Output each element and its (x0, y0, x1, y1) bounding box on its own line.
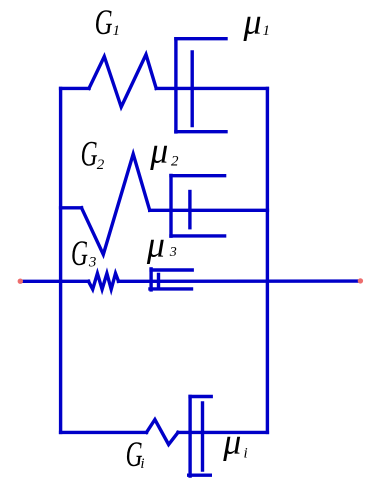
node right terminal (358, 278, 363, 283)
svg-text:3: 3 (88, 255, 97, 271)
svg-text:3: 3 (169, 245, 177, 260)
svg-text:G: G (81, 133, 98, 173)
label Gi (126, 434, 145, 474)
node left terminal (18, 279, 23, 284)
wire bottom rod to right rail (178, 431, 267, 434)
spring Gi (147, 420, 179, 445)
svg-text:2: 2 (97, 157, 105, 173)
dashpot Ui cylinder (189, 396, 212, 476)
wire midline left segment (21, 280, 89, 283)
label U3 (146, 224, 177, 264)
dashpot U3 piston (157, 274, 160, 286)
dashpot U2 cylinder (171, 176, 225, 237)
label G2 (81, 133, 105, 173)
svg-text:2: 2 (171, 153, 179, 169)
dashpot Ui piston (201, 403, 204, 470)
dashpot U1 cylinder (176, 39, 226, 132)
label G3 (71, 233, 96, 273)
label U1 (243, 2, 271, 42)
wire left rail (59, 88, 62, 432)
svg-text:μ: μ (146, 224, 165, 264)
svg-text:μ: μ (222, 421, 241, 461)
spring G2 (82, 154, 150, 255)
svg-text:1: 1 (113, 23, 121, 39)
svg-text:G: G (95, 2, 113, 42)
svg-text:μ: μ (243, 2, 262, 42)
wire branch2 stub from left rail (61, 206, 82, 209)
label U2 (149, 131, 179, 171)
svg-text:i: i (244, 446, 248, 462)
spring G1 (89, 55, 156, 108)
label Ui (222, 421, 247, 461)
dashpot U2 piston (188, 192, 191, 228)
label G1 (95, 2, 120, 42)
wire branch2 rod to right rail (150, 209, 268, 212)
dashpot U3 cylinder (150, 269, 192, 290)
wire right rail (266, 88, 269, 432)
svg-text:G: G (71, 233, 88, 273)
dashpot U1 piston (190, 52, 193, 126)
wire branch1 left horizontal (61, 87, 89, 90)
svg-text:1: 1 (263, 23, 271, 39)
wire midline right segment (119, 279, 360, 283)
svg-text:i: i (140, 456, 144, 472)
wire branch1 rod to right rail (156, 87, 267, 90)
svg-text:μ: μ (149, 131, 168, 171)
wire bottom left horizontal (61, 431, 147, 434)
spring G3 (89, 273, 119, 289)
